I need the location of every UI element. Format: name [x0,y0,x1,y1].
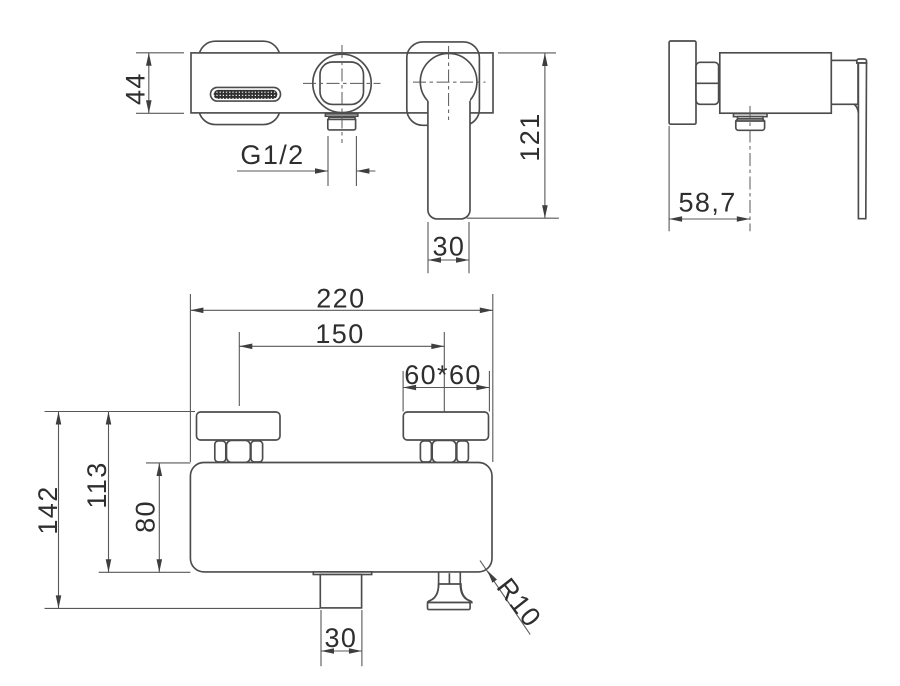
outlet centerline horizontal [303,82,381,84]
handle lever side lines [428,101,470,219]
aerator slot [211,87,281,101]
radius R10 arrow [487,571,497,583]
handle hub circle [420,53,477,110]
side nipple thread line [736,120,765,122]
diverter stem right line [459,572,461,584]
svg-text:220: 220 [316,283,365,313]
right flange nut middle face [432,440,456,462]
dim 80 arrow up [157,463,163,476]
dim 142 line [58,412,60,609]
left wall flange [197,412,281,440]
BOTTOM VIEW [33,283,547,666]
diverter bell outline [428,584,472,603]
dim 58,7 arrow right [737,216,750,222]
diverter center tick [448,573,450,584]
shower outlet square face [320,62,364,104]
left flange nut right face [251,441,263,462]
right wall flange [403,412,488,440]
outlet centerline vertical [341,45,343,143]
dim 220 arrow left [190,308,203,314]
dim 150 arrow right [431,344,444,350]
lever top tab [857,59,867,63]
svg-text:142: 142 [33,485,63,534]
dim 44 extension bottom [136,112,184,114]
dim 150 extension left [238,332,240,406]
shower outlet ring [313,54,371,112]
wall plate [669,41,696,124]
svg-text:113: 113 [82,461,112,508]
mixer body (bottom view) [190,463,492,572]
dim 113 line [108,412,110,573]
right flange nut left face [420,441,431,462]
dim 58,7 extension left [668,126,670,231]
dim 121 extension bottom [467,217,559,219]
dim 142 arrow up [56,412,62,425]
left end cap [199,41,280,124]
svg-text:150: 150 [315,319,364,349]
dim 44 line [148,53,150,114]
dim 58,7 arrow left [669,216,682,222]
handle lever (front) [428,99,470,219]
dim 30 front arrow left [428,257,441,263]
dim 30 front line [428,259,469,261]
dim G1/2 extension right [355,136,357,186]
handle centerline horizontal [413,81,486,83]
dim 142 extension bottom [45,607,321,609]
aerator mesh [214,90,278,99]
dim 44 arrow up [146,53,152,66]
dim 30 bottom extension left [320,610,322,666]
dim G1/2 extension left [327,136,329,186]
dim 58,7 line [669,218,750,220]
mixer body (side) [720,53,832,113]
left flange nut left face [215,441,226,462]
dim 150 line [239,345,444,347]
dim 80 extension top [146,462,190,464]
dim 44 extension top [136,52,184,54]
diverter bell [428,584,472,603]
mixer body (front) [191,53,493,113]
dim 60x60 arrow left [403,385,416,391]
dim 150 extension right [443,332,445,412]
spout lip [313,572,371,575]
svg-text:30: 30 [324,623,357,653]
dim 44 arrow down [146,100,152,113]
right flange nut right face [457,441,469,462]
dim 113 arrow up [106,412,112,425]
radius R10 leader [480,561,530,635]
dim 30 bottom line [321,650,362,652]
FRONT VIEW [121,41,559,273]
dim G1/2 arrow right [315,168,328,174]
dim 30 front extension left [427,222,429,273]
dim 121 line [544,53,546,218]
dim G1/2 tail right [356,170,375,172]
dim 220 arrow right [480,308,493,314]
dim 60x60 extension left [402,371,404,412]
outlet nipple collar [329,117,355,119]
diverter stem left line [438,572,440,584]
outlet nipple thread [328,119,356,130]
svg-text:80: 80 [130,500,160,533]
svg-text:58,7: 58,7 [679,188,737,218]
dim 60x60 arrow right [476,385,489,391]
dim 121 arrow up [542,53,548,66]
dim 142 arrow down [56,595,62,608]
dim 30 bottom extension right [361,610,363,666]
spout [320,575,361,608]
diverter base [428,603,471,610]
outlet nipple flange [325,114,357,116]
svg-text:30: 30 [432,232,465,262]
dim G1/2 arrow left [356,168,369,174]
svg-text:44: 44 [121,72,151,105]
dim 150 arrow left [239,344,252,350]
SIDE VIEW [669,41,866,231]
dim 80 arrow down [157,559,163,572]
dim 220 extension right [492,294,494,462]
side nipple step [738,117,764,119]
svg-text:G1/2: G1/2 [240,140,304,170]
dim 220 extension left [189,294,191,462]
dim 142 extension top [45,411,196,413]
dim 60x60 line [403,387,489,389]
dim 30 front extension right [468,222,470,273]
handle centerline vertical [448,46,450,120]
connection hex nut lower [696,83,719,104]
side nipple flange [734,114,768,117]
dim 80 line [158,463,160,572]
lever transition [854,104,858,113]
lever arm [858,63,866,219]
svg-text:121: 121 [515,112,545,161]
svg-text:R10: R10 [491,572,548,633]
dim 113 extension bottom [99,571,191,573]
left flange nut middle face [227,440,251,462]
right end cap (escutcheon, in front) [407,42,480,125]
dim 220 line [190,309,492,311]
dim 30 bottom arrow left [321,648,334,654]
dim G1/2 leader left [237,170,328,172]
dim 60x60 extension right [488,371,490,412]
dim 121 extension top [498,52,556,54]
dim 121 arrow down [542,205,548,218]
dim 113 arrow down [106,559,112,572]
dim 30 front arrow right [456,257,469,263]
cartridge cover [831,60,858,104]
dim 30 bottom arrow right [349,648,362,654]
side nipple thread [736,119,765,130]
svg-text:60*60: 60*60 [404,360,482,390]
side nipple centerline [749,106,751,231]
connection hex nut upper [696,62,719,83]
